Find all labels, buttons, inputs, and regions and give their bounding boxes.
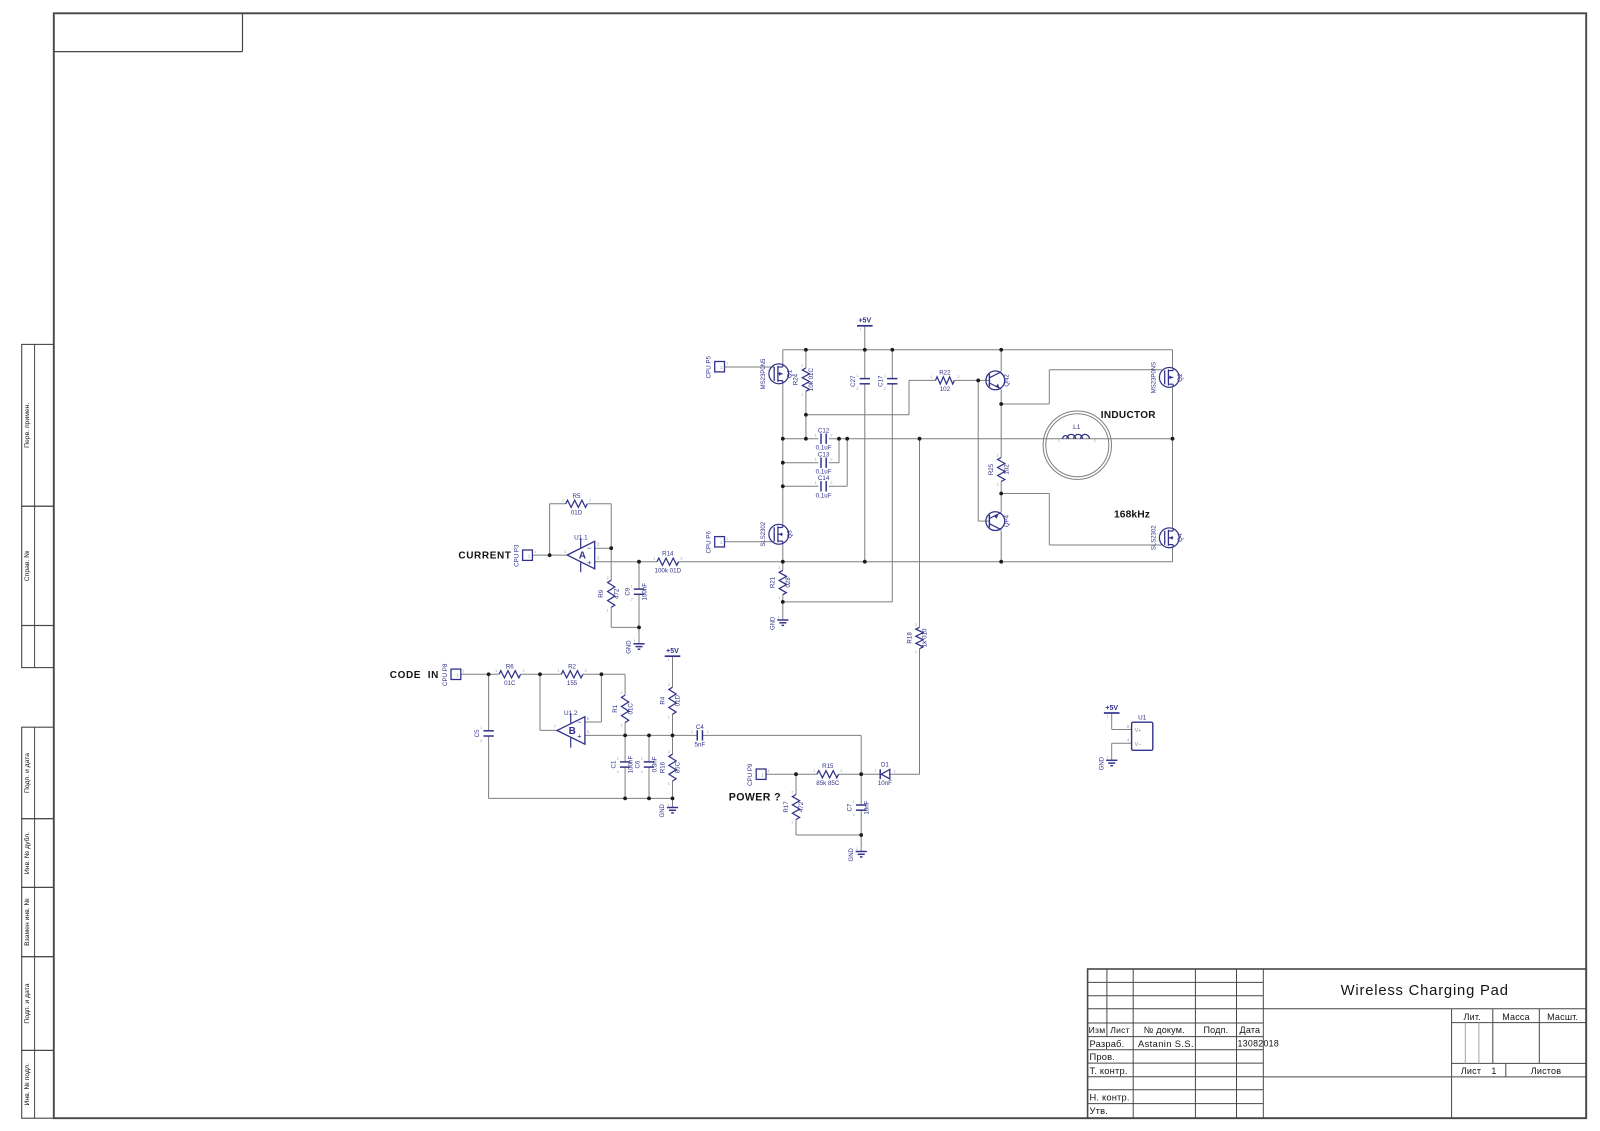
svg-text:V−: V−	[1135, 742, 1142, 748]
svg-text:C13: C13	[818, 451, 830, 458]
svg-text:−: −	[577, 717, 582, 726]
svg-text:1: 1	[620, 724, 622, 728]
svg-text:1: 1	[606, 609, 608, 613]
svg-text:D1: D1	[881, 762, 889, 769]
svg-text:Q1: Q1	[787, 369, 794, 378]
svg-text:R22: R22	[939, 369, 951, 376]
svg-text:0,1uF: 0,1uF	[816, 492, 832, 499]
svg-text:2: 2	[830, 434, 832, 438]
svg-text:1: 1	[778, 596, 780, 600]
svg-text:2: 2	[617, 770, 619, 774]
svg-text:1: 1	[777, 615, 779, 619]
svg-text:5nF: 5nF	[695, 741, 706, 748]
svg-text:1: 1	[813, 769, 815, 773]
svg-text:1: 1	[1491, 1066, 1496, 1076]
svg-text:Подп. и дата: Подп. и дата	[24, 983, 31, 1023]
svg-text:1: 1	[726, 537, 728, 541]
svg-text:2: 2	[957, 375, 959, 379]
svg-text:01C: 01C	[627, 703, 634, 715]
svg-text:B: B	[569, 726, 576, 737]
svg-text:+: +	[587, 558, 592, 567]
svg-text:R24: R24	[793, 373, 800, 385]
svg-text:100nF: 100nF	[641, 583, 648, 601]
svg-text:10k 01C: 10k 01C	[808, 368, 815, 392]
svg-text:472: 472	[613, 588, 620, 599]
svg-text:Q2: Q2	[1177, 373, 1184, 382]
svg-text:R6: R6	[506, 663, 514, 670]
svg-text:1: 1	[667, 658, 669, 662]
svg-text:QP4: QP4	[1005, 514, 1011, 527]
svg-text:Подп. и дата: Подп. и дата	[24, 753, 31, 793]
svg-text:Дата: Дата	[1240, 1025, 1261, 1035]
svg-text:+5V: +5V	[1105, 705, 1118, 712]
svg-text:1: 1	[856, 847, 858, 851]
svg-text:R2: R2	[568, 663, 576, 670]
svg-text:−: −	[587, 544, 592, 553]
svg-text:2: 2	[791, 790, 793, 794]
svg-text:R5: R5	[573, 493, 581, 500]
svg-text:2: 2	[801, 364, 803, 368]
svg-text:1: 1	[534, 550, 536, 554]
svg-text:2: 2	[915, 623, 917, 627]
svg-text:Лит.: Лит.	[1464, 1012, 1481, 1022]
svg-text:2: 2	[840, 769, 842, 773]
svg-text:C14: C14	[818, 475, 830, 482]
svg-text:1: 1	[768, 769, 770, 773]
svg-text:1: 1	[915, 650, 917, 654]
svg-text:Лист: Лист	[1461, 1066, 1481, 1076]
svg-text:2: 2	[480, 739, 482, 743]
svg-text:POWER ?: POWER ?	[729, 792, 781, 804]
svg-text:13082018: 13082018	[1238, 1039, 1280, 1049]
svg-text:01D: 01D	[675, 694, 682, 706]
svg-text:155: 155	[567, 680, 578, 687]
svg-text:028: 028	[785, 577, 792, 588]
svg-text:2: 2	[778, 566, 780, 570]
svg-text:CPU P6: CPU P6	[706, 531, 713, 554]
svg-text:1: 1	[815, 434, 817, 438]
svg-text:1: 1	[1106, 756, 1108, 760]
svg-text:Инв. № дубл.: Инв. № дубл.	[23, 832, 31, 874]
svg-text:QN2: QN2	[1005, 374, 1011, 387]
svg-text:C6: C6	[634, 760, 641, 768]
svg-text:85k 85C: 85k 85C	[816, 780, 840, 787]
svg-text:R15: R15	[822, 763, 834, 770]
svg-text:10nF: 10nF	[864, 800, 871, 814]
svg-text:+: +	[577, 731, 582, 740]
svg-text:R14: R14	[662, 551, 674, 558]
svg-text:2: 2	[996, 453, 998, 457]
svg-text:102: 102	[1003, 464, 1010, 475]
svg-text:85C: 85C	[675, 761, 682, 773]
svg-text:2: 2	[830, 481, 832, 485]
svg-text:1: 1	[726, 362, 728, 366]
svg-text:R1: R1	[612, 704, 619, 712]
svg-text:CODE IN: CODE IN	[390, 670, 439, 681]
svg-text:1: 1	[495, 669, 497, 673]
svg-text:2: 2	[522, 669, 524, 673]
svg-text:Листов: Листов	[1531, 1066, 1561, 1076]
svg-text:C7: C7	[847, 803, 854, 811]
svg-text:1: 1	[528, 553, 531, 558]
svg-text:1: 1	[668, 716, 670, 720]
svg-text:1: 1	[653, 557, 655, 561]
svg-text:1: 1	[801, 393, 803, 397]
svg-text:R25: R25	[988, 463, 995, 475]
svg-text:C27: C27	[850, 375, 857, 387]
svg-text:1k 010: 1k 010	[922, 628, 929, 647]
svg-text:Изм: Изм	[1089, 1025, 1106, 1035]
svg-text:1: 1	[641, 757, 643, 761]
svg-text:2: 2	[1094, 439, 1096, 443]
svg-text:1: 1	[480, 726, 482, 730]
svg-text:1: 1	[634, 639, 636, 643]
svg-text:GND: GND	[627, 640, 633, 654]
svg-text:2: 2	[707, 730, 709, 734]
svg-text:R16: R16	[659, 761, 666, 773]
svg-text:1: 1	[667, 803, 669, 807]
svg-text:CPU P9: CPU P9	[747, 763, 754, 786]
svg-text:10nF: 10nF	[878, 780, 892, 787]
svg-text:Взамен инв. №: Взамен инв. №	[24, 898, 31, 946]
svg-text:GND: GND	[660, 803, 666, 817]
svg-text:CURRENT: CURRENT	[458, 551, 511, 562]
svg-text:1: 1	[720, 540, 723, 545]
svg-text:1: 1	[996, 483, 998, 487]
svg-text:Q3: Q3	[787, 530, 794, 539]
svg-text:1: 1	[874, 769, 876, 773]
svg-text:R4: R4	[659, 696, 666, 704]
svg-text:GND: GND	[849, 847, 855, 861]
svg-text:C1: C1	[610, 760, 617, 768]
svg-text:GND: GND	[771, 616, 777, 630]
svg-text:0,3nF: 0,3nF	[651, 756, 658, 772]
svg-text:Astanin S.S.: Astanin S.S.	[1138, 1039, 1194, 1049]
svg-text:1: 1	[691, 730, 693, 734]
svg-text:2: 2	[606, 576, 608, 580]
svg-text:R9: R9	[598, 589, 605, 597]
svg-text:100k 01D: 100k 01D	[655, 567, 682, 574]
svg-text:Т. контр.: Т. контр.	[1090, 1066, 1128, 1076]
svg-text:U1: U1	[1138, 715, 1147, 722]
svg-text:MS23P0N5: MS23P0N5	[761, 358, 767, 389]
svg-text:1: 1	[720, 365, 723, 370]
svg-text:1: 1	[617, 757, 619, 761]
svg-text:1: 1	[791, 821, 793, 825]
svg-text:1: 1	[930, 375, 932, 379]
svg-text:+5V: +5V	[666, 648, 679, 655]
svg-text:Wireless Charging Pad: Wireless Charging Pad	[1341, 983, 1509, 999]
svg-text:1: 1	[562, 499, 564, 503]
svg-text:R18: R18	[906, 632, 913, 644]
svg-text:Инв. № подл.: Инв. № подл.	[24, 1063, 31, 1105]
svg-text:2: 2	[631, 597, 633, 601]
svg-text:2: 2	[680, 557, 682, 561]
svg-text:+5V: +5V	[858, 318, 871, 325]
svg-text:1: 1	[860, 327, 862, 331]
svg-text:168kHz: 168kHz	[1114, 509, 1150, 520]
svg-text:1: 1	[853, 800, 855, 804]
svg-text:1: 1	[668, 782, 670, 786]
svg-text:INDUCTOR: INDUCTOR	[1101, 410, 1156, 421]
svg-text:Масса: Масса	[1502, 1012, 1530, 1022]
svg-text:1: 1	[761, 772, 764, 777]
svg-text:2: 2	[641, 770, 643, 774]
svg-text:GND: GND	[1099, 756, 1105, 770]
svg-text:C17: C17	[878, 375, 885, 387]
svg-text:C5: C5	[474, 729, 481, 737]
svg-text:CPU P3: CPU P3	[514, 544, 521, 567]
svg-text:1: 1	[1058, 439, 1060, 443]
svg-text:V+: V+	[1135, 728, 1142, 734]
svg-text:Подп.: Подп.	[1203, 1025, 1228, 1035]
svg-text:1: 1	[815, 481, 817, 485]
svg-text:Утв.: Утв.	[1090, 1106, 1109, 1116]
svg-text:CPU P5: CPU P5	[706, 355, 713, 378]
svg-text:472: 472	[798, 801, 805, 812]
svg-text:U1.1: U1.1	[574, 535, 588, 542]
svg-text:A: A	[579, 550, 586, 561]
svg-text:1: 1	[557, 669, 559, 673]
svg-text:Разраб.: Разраб.	[1090, 1039, 1125, 1049]
svg-text:C12: C12	[818, 427, 830, 434]
svg-text:2: 2	[853, 813, 855, 817]
svg-text:R21: R21	[770, 576, 777, 588]
svg-text:2: 2	[620, 691, 622, 695]
svg-text:CPU P8: CPU P8	[442, 663, 449, 686]
svg-text:R17: R17	[783, 801, 790, 813]
svg-text:2: 2	[830, 458, 832, 462]
svg-text:1: 1	[815, 458, 817, 462]
svg-text:SLS2302: SLS2302	[1152, 525, 1158, 550]
svg-text:Лист: Лист	[1110, 1025, 1129, 1035]
svg-text:Перв. примен.: Перв. примен.	[24, 403, 31, 448]
svg-text:C4: C4	[696, 724, 704, 731]
svg-text:1: 1	[456, 673, 459, 678]
svg-text:2: 2	[668, 683, 670, 687]
svg-text:1: 1	[1107, 715, 1109, 719]
svg-text:2: 2	[589, 499, 591, 503]
svg-text:01D: 01D	[571, 509, 583, 516]
svg-text:2: 2	[585, 669, 587, 673]
svg-text:U1.2: U1.2	[564, 710, 578, 717]
svg-text:Н. контр.: Н. контр.	[1090, 1093, 1130, 1103]
svg-text:MS23P0NS: MS23P0NS	[1152, 362, 1158, 393]
svg-text:Пров.: Пров.	[1090, 1052, 1116, 1062]
svg-text:1: 1	[631, 584, 633, 588]
svg-text:L1: L1	[1073, 424, 1081, 431]
svg-text:C9: C9	[624, 587, 631, 595]
svg-text:1: 1	[462, 669, 464, 673]
svg-text:Q4: Q4	[1177, 533, 1184, 542]
svg-text:102: 102	[940, 386, 951, 393]
svg-text:Справ. №: Справ. №	[24, 550, 31, 581]
svg-text:SLS2302: SLS2302	[761, 521, 767, 546]
svg-text:№ докум.: № докум.	[1144, 1025, 1185, 1035]
svg-text:Масшт.: Масшт.	[1547, 1012, 1578, 1022]
svg-text:2: 2	[894, 770, 896, 774]
svg-text:2: 2	[668, 750, 670, 754]
svg-text:01C: 01C	[504, 680, 516, 687]
